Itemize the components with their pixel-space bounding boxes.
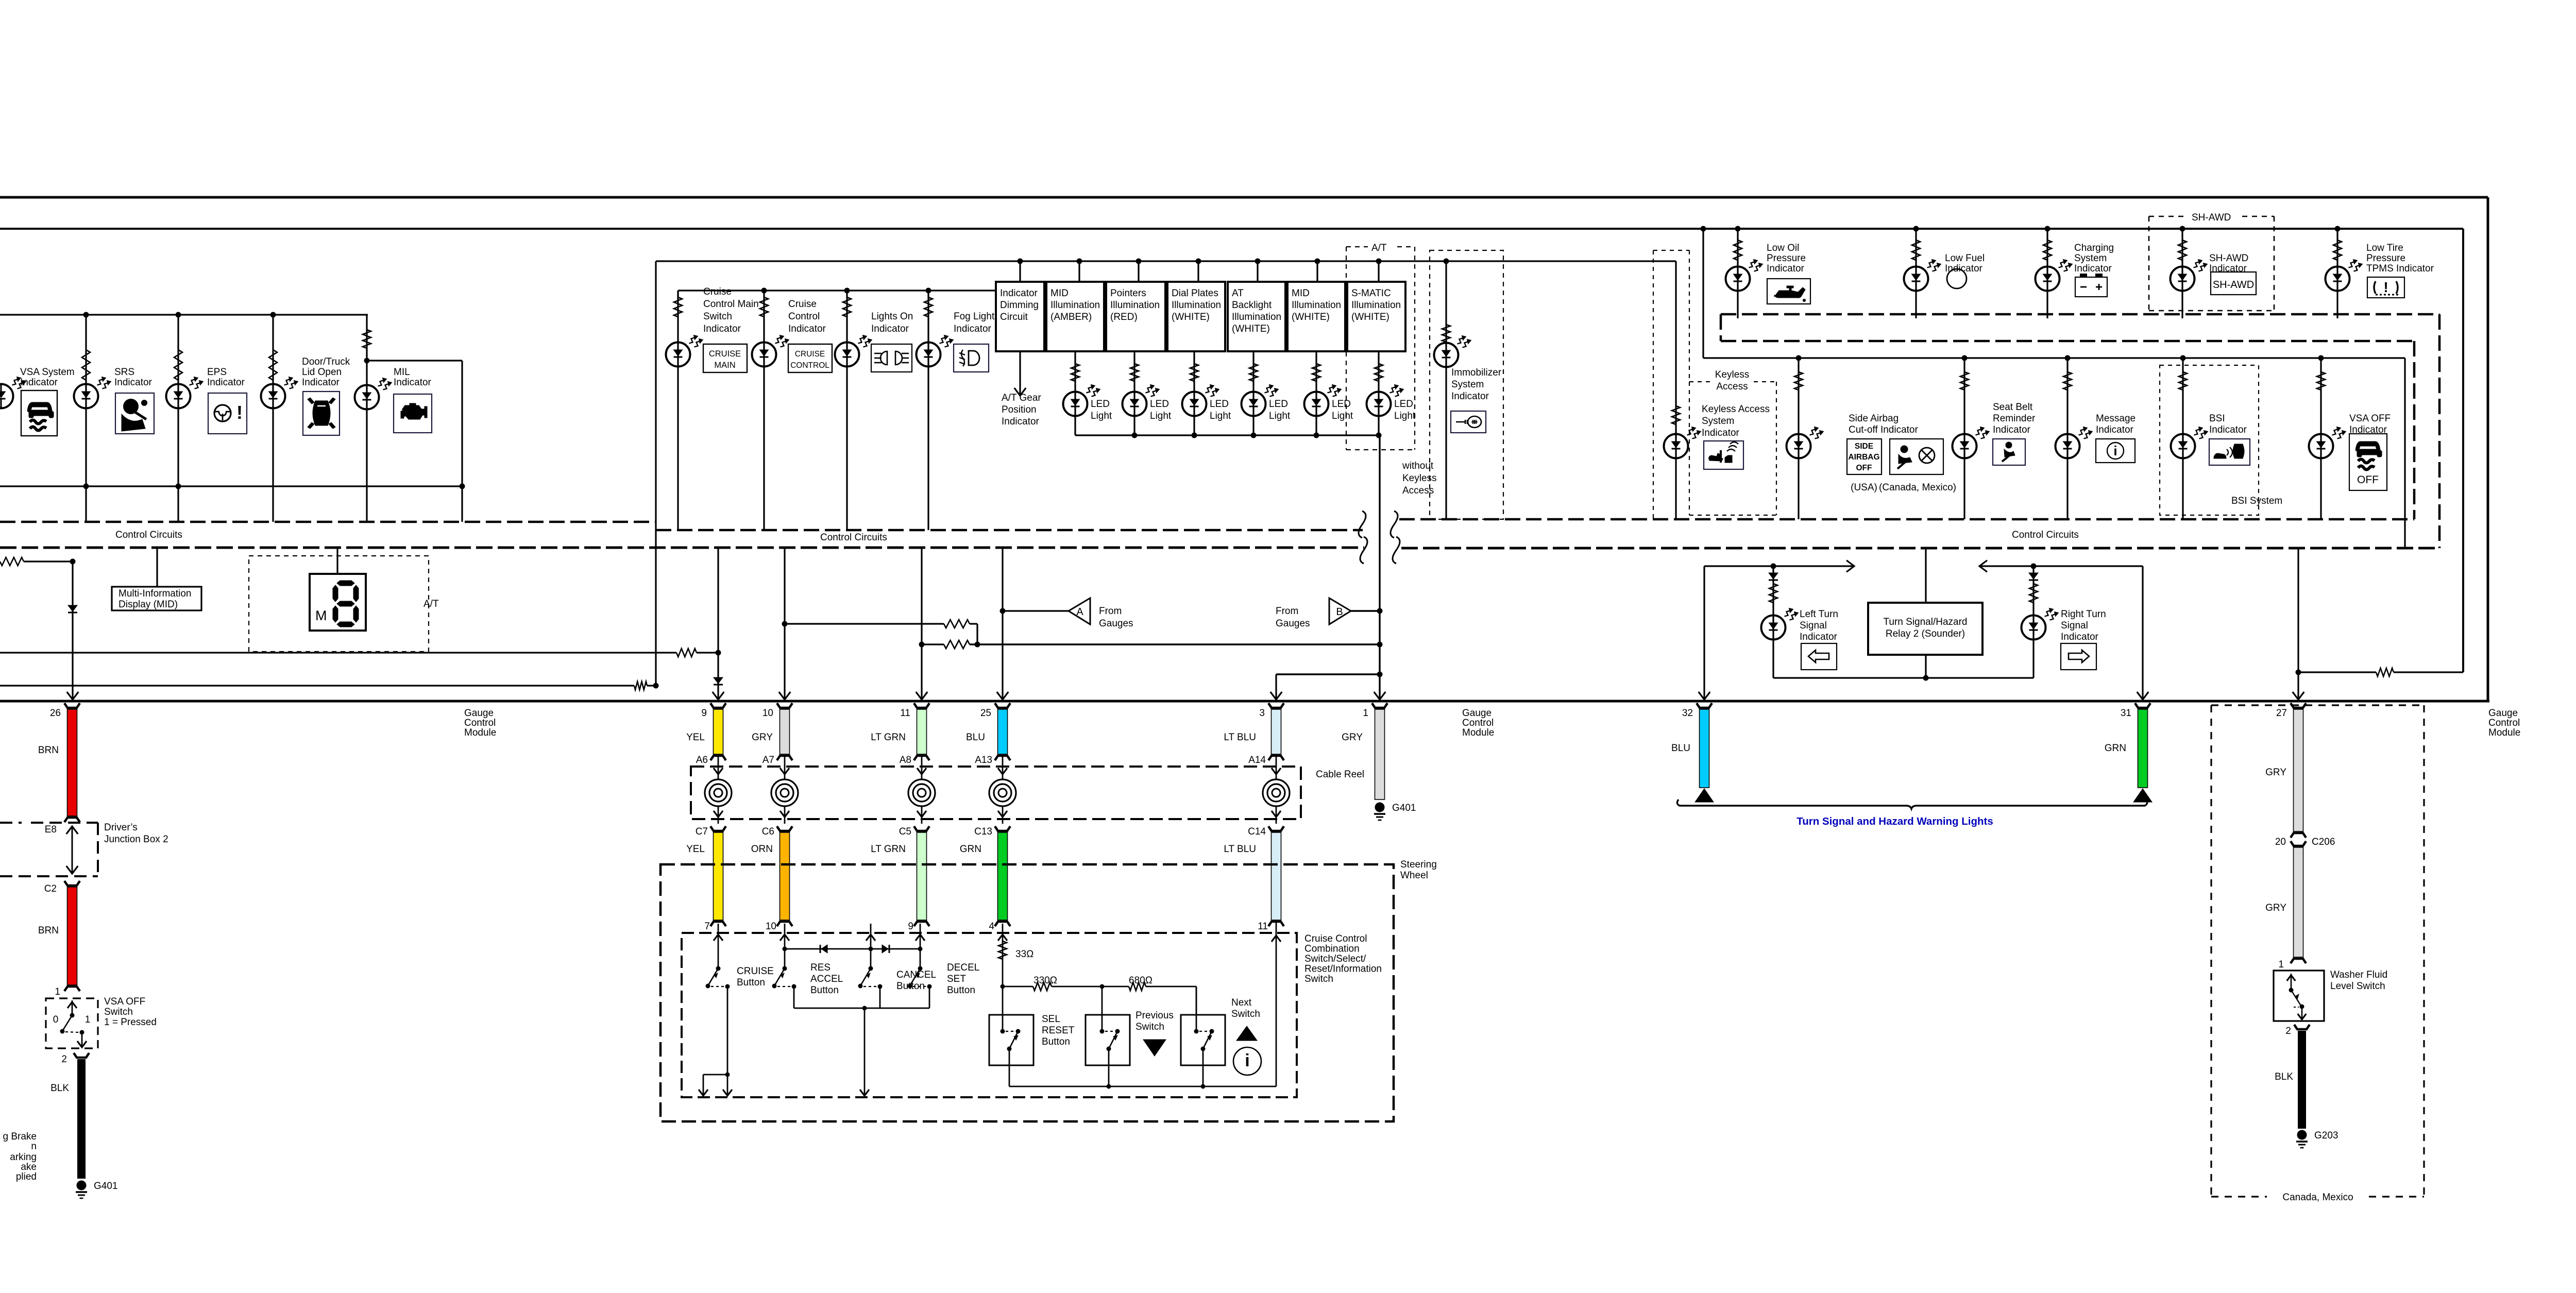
Canada Mexico dashed box	[2211, 704, 2424, 706]
svg-text:25: 25	[980, 708, 991, 719]
left turn arrow icon	[1801, 643, 1837, 670]
svg-text:Low Fuel: Low Fuel	[1945, 253, 1985, 264]
Cable Reel dashed box	[691, 767, 1301, 819]
wire: B to S-MATIC column	[1351, 610, 1380, 611]
svg-text:33Ω: 33Ω	[1015, 949, 1033, 960]
svg-text:GRN: GRN	[960, 844, 981, 855]
terminal triangle 31	[2133, 789, 2152, 802]
svg-text:Indicator: Indicator	[1002, 416, 1040, 427]
svg-text:(WHITE): (WHITE)	[1172, 312, 1210, 322]
svg-text:SH-AWD: SH-AWD	[2209, 253, 2248, 264]
svg-text:i: i	[1245, 1051, 1249, 1070]
svg-text:Light: Light	[1150, 411, 1172, 421]
svg-text:1: 1	[2278, 959, 2284, 970]
svg-text:Light: Light	[1210, 411, 1231, 421]
indicator column Cruise	[677, 291, 679, 530]
svg-text:Pressure: Pressure	[2366, 253, 2405, 264]
svg-text:MID: MID	[1050, 288, 1069, 299]
svg-text:AT: AT	[1232, 288, 1244, 299]
svg-text:Lights On: Lights On	[871, 311, 913, 322]
svg-text:Control: Control	[788, 311, 820, 322]
svg-text:C7: C7	[696, 826, 708, 837]
svg-text:(WHITE): (WHITE)	[1232, 324, 1270, 334]
svg-text:Control Main: Control Main	[703, 299, 759, 310]
7-segment gear display	[336, 548, 338, 574]
svg-text:1: 1	[55, 986, 60, 997]
svg-text:C5: C5	[899, 826, 911, 837]
wire: pin9 column	[717, 548, 719, 700]
svg-text:Switch: Switch	[104, 1007, 133, 1017]
svg-text:Switch: Switch	[1136, 1022, 1164, 1032]
svg-text:(Canada, Mexico): (Canada, Mexico)	[1879, 482, 1956, 493]
svg-text:Indicator: Indicator	[207, 377, 245, 388]
svg-text:ake: ake	[21, 1162, 37, 1172]
ground G203	[2297, 1130, 2307, 1140]
wire: res/cancel/decel output bus	[793, 986, 795, 1008]
svg-text:LED: LED	[1150, 399, 1169, 410]
wire C ORN	[777, 826, 792, 831]
wire: pin11 column	[921, 548, 922, 700]
wire: pin26 drop	[72, 562, 73, 700]
svg-text:3: 3	[1259, 708, 1265, 719]
connector C206	[2291, 833, 2306, 838]
indicator column Low Fuel Indicator	[1913, 226, 1919, 232]
svg-text:(AMBER): (AMBER)	[1050, 312, 1092, 322]
ground G401 right	[1375, 803, 1385, 812]
svg-text:Control Circuits: Control Circuits	[820, 532, 887, 543]
indicator column Charging System	[2045, 226, 2050, 232]
svg-text:Button: Button	[737, 977, 765, 988]
svg-text:G401: G401	[1392, 803, 1416, 813]
svg-text:Indicator: Indicator	[2209, 424, 2247, 435]
indicator column Low Tire Pressure	[2335, 226, 2341, 232]
svg-text:Gauge: Gauge	[464, 708, 494, 719]
Steering Wheel dashed box	[660, 864, 1394, 1121]
svg-text:Gauge: Gauge	[1462, 708, 1492, 719]
switch RES ACCEL Button	[784, 924, 786, 967]
right turn arrow icon	[2061, 643, 2096, 670]
svg-text:Cut-off Indicator: Cut-off Indicator	[1849, 424, 1919, 435]
svg-text:GRY: GRY	[752, 732, 773, 743]
Turn Signal/Hazard Relay 2 (Sounder) box	[1925, 548, 1926, 603]
wire: line at 1331	[634, 682, 647, 690]
indicator column EPS	[177, 315, 179, 486]
svg-text:without: without	[1402, 461, 1434, 471]
svg-text:680Ω: 680Ω	[1129, 975, 1153, 986]
wire: sub-box left edge	[655, 261, 656, 686]
Right Turn Signal Indicator	[2032, 566, 2034, 678]
svg-text:Module: Module	[2488, 727, 2520, 738]
svg-text:MID: MID	[1292, 288, 1310, 299]
wire: pin25 column	[1002, 548, 1003, 700]
svg-text:Cruise Control: Cruise Control	[1304, 933, 1367, 944]
svg-text:Cable Reel: Cable Reel	[1316, 769, 1364, 780]
wire: bus drop	[864, 1008, 866, 1094]
module bottom line	[0, 700, 2489, 703]
svg-text:SEL: SEL	[1042, 1014, 1060, 1025]
svg-text:YEL: YEL	[686, 732, 705, 743]
svg-text:Washer Fluid: Washer Fluid	[2330, 969, 2387, 980]
svg-text:C13: C13	[974, 826, 992, 837]
svg-text:Seat Belt: Seat Belt	[1993, 402, 2033, 413]
svg-text:Low Tire: Low Tire	[2366, 243, 2403, 253]
wire: select bus return	[1009, 1086, 1276, 1087]
svg-text:Indicator: Indicator	[954, 324, 992, 334]
indicator column keyless	[1672, 406, 1680, 424]
svg-text:Indicator: Indicator	[2074, 263, 2112, 274]
keyless condition fine dashed box	[1653, 250, 1689, 251]
svg-text:RES: RES	[810, 962, 831, 973]
Multi-Information Display box	[156, 548, 158, 587]
wire: return riser to pin 11 column	[1276, 923, 1277, 1086]
block Pointers Illumination (RED)	[1106, 282, 1165, 351]
block Indicator Dimming Circuit	[996, 282, 1044, 351]
svg-text:LED: LED	[1332, 399, 1351, 410]
svg-text:MAIN: MAIN	[714, 361, 735, 370]
svg-text:A/T Gear: A/T Gear	[1002, 393, 1041, 403]
svg-text:Button: Button	[810, 985, 839, 996]
wire: MIL sub-box right edge	[461, 361, 463, 522]
triangle A From Gauges	[1069, 598, 1090, 624]
svg-text:C2: C2	[44, 883, 57, 894]
svg-text:C206: C206	[2312, 837, 2335, 847]
svg-text:Light: Light	[1091, 411, 1112, 421]
svg-text:27: 27	[2276, 708, 2287, 719]
outer box: Gauge Control Module	[0, 196, 2488, 199]
svg-text:GRY: GRY	[2265, 903, 2286, 913]
svg-text:A/T: A/T	[1371, 243, 1387, 253]
inner box top	[0, 228, 2463, 230]
svg-text:C14: C14	[1248, 826, 1266, 837]
svg-text:Illumination: Illumination	[1292, 300, 1341, 311]
svg-text:Combination: Combination	[1304, 944, 1360, 955]
svg-text:VSA OFF: VSA OFF	[2349, 413, 2391, 424]
indicator column SH-AWD Indicator	[2180, 226, 2185, 232]
svg-text:From: From	[1276, 606, 1298, 617]
svg-text:10: 10	[762, 708, 773, 719]
svg-text:LT GRN: LT GRN	[871, 844, 906, 855]
wire: diode row between RES and DECEL	[785, 948, 920, 950]
wire: sub-box top line	[656, 260, 1676, 262]
svg-text:Switch: Switch	[703, 311, 732, 322]
indicator column msg	[2066, 358, 2068, 519]
LED Light	[1315, 351, 1317, 435]
svg-text:Illumination: Illumination	[1351, 300, 1401, 311]
svg-text:G203: G203	[2314, 1130, 2338, 1141]
wire: cruise indicator bus	[678, 290, 996, 291]
svg-text:9: 9	[701, 708, 707, 719]
svg-text:BLK: BLK	[2275, 1071, 2293, 1082]
svg-text:Indicator: Indicator	[1767, 263, 1805, 274]
svg-text:Immobilizer: Immobilizer	[1451, 367, 1502, 378]
svg-text:LED: LED	[1269, 399, 1288, 410]
svg-text:330Ω: 330Ω	[1033, 975, 1057, 986]
svg-text:A: A	[1076, 606, 1083, 618]
wire: lower left bus	[0, 485, 462, 487]
svg-text:Gauges: Gauges	[1099, 618, 1133, 629]
cable reel coil	[784, 757, 786, 779]
svg-text:Pointers: Pointers	[1110, 288, 1146, 299]
svg-text:VSA OFF: VSA OFF	[104, 996, 145, 1007]
svg-text:BSI System: BSI System	[2231, 496, 2282, 506]
svg-text:31: 31	[2121, 708, 2131, 719]
wire: cruise button output	[727, 986, 728, 1075]
svg-text:(WHITE): (WHITE)	[1351, 312, 1389, 322]
svg-text:S-MATIC: S-MATIC	[1351, 288, 1391, 299]
indicator column Low Oil Pressure	[1735, 226, 1741, 232]
svg-text:BRN: BRN	[38, 925, 59, 936]
wire: pin10 resistor branch	[785, 623, 944, 624]
svg-text:LED: LED	[1394, 399, 1413, 410]
svg-text:20: 20	[2275, 837, 2286, 847]
pin 2 BLK wire right	[2294, 1025, 2310, 1029]
svg-text:Reminder: Reminder	[1993, 413, 2036, 424]
svg-text:Cruise: Cruise	[788, 299, 817, 310]
svg-text:System: System	[2074, 253, 2107, 264]
block S-MATIC Illumination (WHITE)	[1347, 282, 1405, 351]
svg-text:BLU: BLU	[966, 732, 985, 743]
svg-text:Turn Signal/Hazard: Turn Signal/Hazard	[1884, 617, 1968, 627]
dashed bottom of indicator box (left)	[0, 521, 656, 523]
svg-text:g Brake: g Brake	[3, 1131, 37, 1142]
svg-text:B: B	[1336, 606, 1343, 618]
immobilizer key icon	[1451, 411, 1486, 433]
wire: to From Gauges A	[1003, 610, 1069, 611]
svg-text:9: 9	[908, 921, 913, 932]
dashed bottom of indicator box (right)	[1399, 518, 2414, 521]
svg-text:A14: A14	[1248, 755, 1266, 765]
inner box right edge	[2462, 229, 2464, 672]
svg-text:LT BLU: LT BLU	[1224, 732, 1256, 743]
wire: turn signal bottom bus	[1773, 677, 2033, 678]
svg-text:System: System	[1451, 379, 1484, 390]
svg-text:A/T: A/T	[423, 599, 439, 609]
svg-text:AIRBAG: AIRBAG	[1848, 453, 1879, 462]
svg-text:LED: LED	[1210, 399, 1229, 410]
svg-text:Indicator: Indicator	[788, 324, 826, 334]
svg-text:Illumination: Illumination	[1050, 300, 1100, 311]
svg-text:Indicator: Indicator	[2096, 424, 2134, 435]
A/T dashed box around S-MATIC	[1346, 246, 1368, 247]
svg-text:Circuit: Circuit	[1000, 312, 1028, 322]
svg-text:E8: E8	[45, 824, 57, 835]
svg-text:Driver’s: Driver’s	[104, 822, 138, 833]
pin 20 GRY wire 2	[2294, 847, 2303, 957]
block MID Illumination (AMBER)	[1046, 282, 1104, 351]
svg-text:2: 2	[61, 1054, 67, 1065]
A/T dashed box (gear display)	[249, 556, 429, 652]
svg-text:Indicator: Indicator	[703, 324, 741, 334]
wire C YEL	[710, 826, 726, 831]
wire: LED bottom bus	[1075, 434, 1379, 436]
cable reel coil	[921, 757, 923, 779]
svg-text:Multi-Information: Multi-Information	[118, 588, 192, 599]
svg-text:2: 2	[2285, 1026, 2291, 1036]
wire: keyless column from sub-box line	[1675, 261, 1676, 519]
indicator column vsaoff	[2320, 358, 2321, 519]
svg-text:Light: Light	[1332, 411, 1353, 421]
block Dial Plates Illumination (WHITE)	[1167, 282, 1225, 351]
switch DECEL SET Button	[920, 924, 921, 967]
wire: resistor ladder	[1003, 986, 1033, 988]
svg-text:BLK: BLK	[50, 1083, 69, 1094]
LED Light	[1193, 351, 1195, 435]
svg-text:SIDE: SIDE	[1855, 442, 1873, 451]
LED Light	[1074, 351, 1076, 435]
svg-text:LT GRN: LT GRN	[871, 732, 906, 743]
svg-text:OFF: OFF	[1856, 464, 1872, 472]
svg-text:Gauge: Gauge	[2488, 708, 2518, 719]
svg-text:Button: Button	[1042, 1036, 1070, 1047]
svg-text:(WHITE): (WHITE)	[1292, 312, 1330, 322]
svg-text:A6: A6	[696, 755, 708, 765]
pin C2 BRN wire	[64, 881, 80, 886]
svg-text:Canada, Mexico: Canada, Mexico	[2282, 1192, 2353, 1203]
svg-text:Fog Light: Fog Light	[954, 311, 995, 322]
wire: right indicator bus	[1703, 357, 2405, 359]
indicator column bsi	[2182, 358, 2183, 519]
svg-text:CONTROL: CONTROL	[790, 361, 829, 370]
svg-text:Indicator: Indicator	[2061, 632, 2099, 642]
svg-text:Control Circuits: Control Circuits	[2012, 530, 2079, 540]
LED Light	[1133, 351, 1135, 435]
wire C GRN	[995, 826, 1010, 831]
svg-text:Signal: Signal	[1800, 620, 1827, 631]
wire C LT GRN	[914, 826, 929, 831]
svg-text:Pressure: Pressure	[1767, 253, 1806, 264]
svg-text:(USA): (USA)	[1851, 482, 1877, 493]
svg-text:Lid Open: Lid Open	[302, 367, 342, 378]
svg-text:Low Oil: Low Oil	[1767, 243, 1799, 253]
svg-text:BLU: BLU	[1671, 743, 1690, 754]
LED Light	[1252, 351, 1254, 435]
svg-text:Indicator: Indicator	[114, 377, 152, 388]
switch box Previous Switch	[1086, 1015, 1130, 1065]
block AT Backlight Illumination (WHITE)	[1228, 282, 1285, 351]
svg-text:Side Airbag: Side Airbag	[1849, 413, 1899, 424]
svg-text:Message: Message	[2096, 413, 2136, 424]
svg-text:32: 32	[1682, 708, 1693, 719]
Washer Fluid Level Switch box	[2274, 971, 2324, 1021]
svg-text:11: 11	[1258, 921, 1268, 932]
svg-text:Keyless Access: Keyless Access	[1702, 404, 1770, 415]
svg-text:arking: arking	[10, 1152, 37, 1163]
svg-text:From: From	[1099, 606, 1122, 617]
svg-text:Button: Button	[947, 985, 975, 996]
wire: pin10 column	[784, 548, 785, 700]
next triangle	[1236, 1026, 1257, 1041]
info icon	[1233, 1047, 1261, 1075]
svg-text:Switch/Select/: Switch/Select/	[1304, 954, 1366, 964]
svg-text:Junction Box 2: Junction Box 2	[104, 834, 168, 845]
svg-text:Control: Control	[2488, 718, 2520, 728]
svg-text:Indicator: Indicator	[1993, 424, 2031, 435]
indicator column SRS	[85, 315, 87, 486]
indicator column Door/Truck	[272, 315, 274, 486]
svg-text:Reset/Information: Reset/Information	[1304, 964, 1382, 975]
svg-text:Indicator: Indicator	[302, 377, 340, 388]
svg-text:SH-AWD: SH-AWD	[2192, 212, 2231, 223]
svg-text:EPS: EPS	[207, 367, 227, 378]
wire C LT BLU	[1268, 826, 1284, 831]
switch box SEL RESET Button	[989, 1015, 1033, 1065]
wire: pin26 feed resistor	[0, 557, 24, 566]
wire: pin27 column	[2297, 548, 2299, 700]
svg-text:RESET: RESET	[1042, 1025, 1075, 1036]
svg-text:Indicator: Indicator	[1800, 632, 1838, 642]
svg-text:!: !	[236, 402, 243, 423]
svg-text:0: 0	[53, 1014, 59, 1025]
svg-text:1: 1	[85, 1014, 91, 1025]
svg-text:Backlight: Backlight	[1232, 300, 1272, 311]
svg-text:M: M	[315, 608, 327, 623]
svg-text:Indicator: Indicator	[20, 377, 58, 388]
svg-text:A13: A13	[975, 755, 992, 765]
svg-text:System: System	[1702, 416, 1734, 427]
svg-text:Control Circuits: Control Circuits	[115, 530, 182, 540]
indicator MIL column	[366, 315, 367, 361]
dashed bottom of indicator box (middle)	[656, 529, 1363, 532]
svg-text:Keyless: Keyless	[1402, 473, 1437, 484]
svg-text:CRUISE: CRUISE	[795, 350, 825, 359]
svg-text:LED: LED	[1091, 399, 1110, 410]
svg-text:Module: Module	[464, 727, 496, 738]
svg-text:Illumination: Illumination	[1172, 300, 1221, 311]
right control circuits dashed box R1	[1721, 313, 2439, 316]
svg-text:10: 10	[766, 921, 776, 932]
svg-text:DECEL: DECEL	[947, 962, 979, 973]
svg-text:Dimming: Dimming	[1000, 300, 1039, 311]
svg-text:Access: Access	[1402, 485, 1434, 496]
previous triangle	[1143, 1040, 1166, 1056]
Keyless Access dashed box	[1689, 250, 1690, 382]
svg-text:GRN: GRN	[2105, 743, 2126, 754]
svg-text:G401: G401	[94, 1181, 117, 1192]
svg-text:Right Turn: Right Turn	[2061, 609, 2106, 620]
svg-text:TPMS Indicator: TPMS Indicator	[2366, 263, 2434, 274]
svg-text:Wheel: Wheel	[1400, 870, 1428, 881]
wire: pin32 feed line	[1704, 565, 1853, 567]
svg-text:BSI: BSI	[2209, 413, 2225, 424]
resistor 33 ohm	[1002, 924, 1004, 986]
SH-AWD dashed box	[2149, 216, 2184, 217]
svg-text:7: 7	[704, 921, 710, 932]
BSI System dotted box	[2160, 365, 2259, 515]
svg-text:Indicator: Indicator	[1702, 428, 1740, 438]
svg-text:4: 4	[989, 921, 994, 932]
svg-text:Light: Light	[1394, 411, 1416, 421]
svg-text:Cruise: Cruise	[703, 286, 732, 297]
svg-text:11: 11	[900, 708, 910, 719]
svg-text:BRN: BRN	[38, 745, 59, 756]
wire: right bus drop to lower box	[2404, 358, 2405, 548]
svg-text:A7: A7	[762, 755, 774, 765]
svg-text:CRUISE: CRUISE	[709, 349, 741, 359]
svg-text:Module: Module	[1462, 727, 1494, 738]
wire: pin31 feed line	[1979, 560, 1987, 572]
without Keyless Access dashed box	[1430, 250, 1503, 519]
svg-text:n: n	[31, 1141, 37, 1152]
svg-text:SET: SET	[947, 974, 966, 984]
svg-text:OFF: OFF	[2357, 474, 2379, 486]
svg-text:GRY: GRY	[2265, 767, 2286, 778]
svg-text:LT BLU: LT BLU	[1224, 844, 1256, 855]
svg-text:!: !	[2383, 279, 2388, 295]
svg-text:GRY: GRY	[1342, 732, 1363, 743]
Driver's Junction Box 2	[0, 822, 22, 824]
svg-text:Light: Light	[1269, 411, 1291, 421]
svg-text:Steering: Steering	[1400, 859, 1437, 870]
